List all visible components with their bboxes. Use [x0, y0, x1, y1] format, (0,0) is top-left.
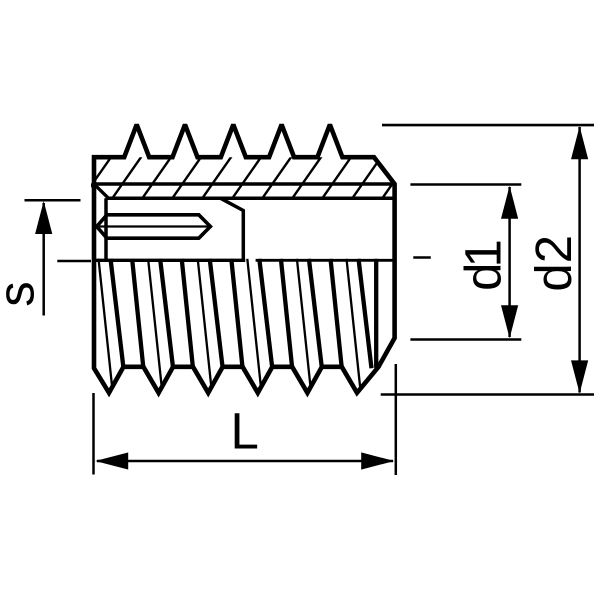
- svg-text:s: s: [0, 281, 45, 307]
- svg-text:d2: d2: [525, 235, 582, 292]
- svg-text:L: L: [231, 403, 259, 460]
- svg-text:d1: d1: [455, 239, 512, 291]
